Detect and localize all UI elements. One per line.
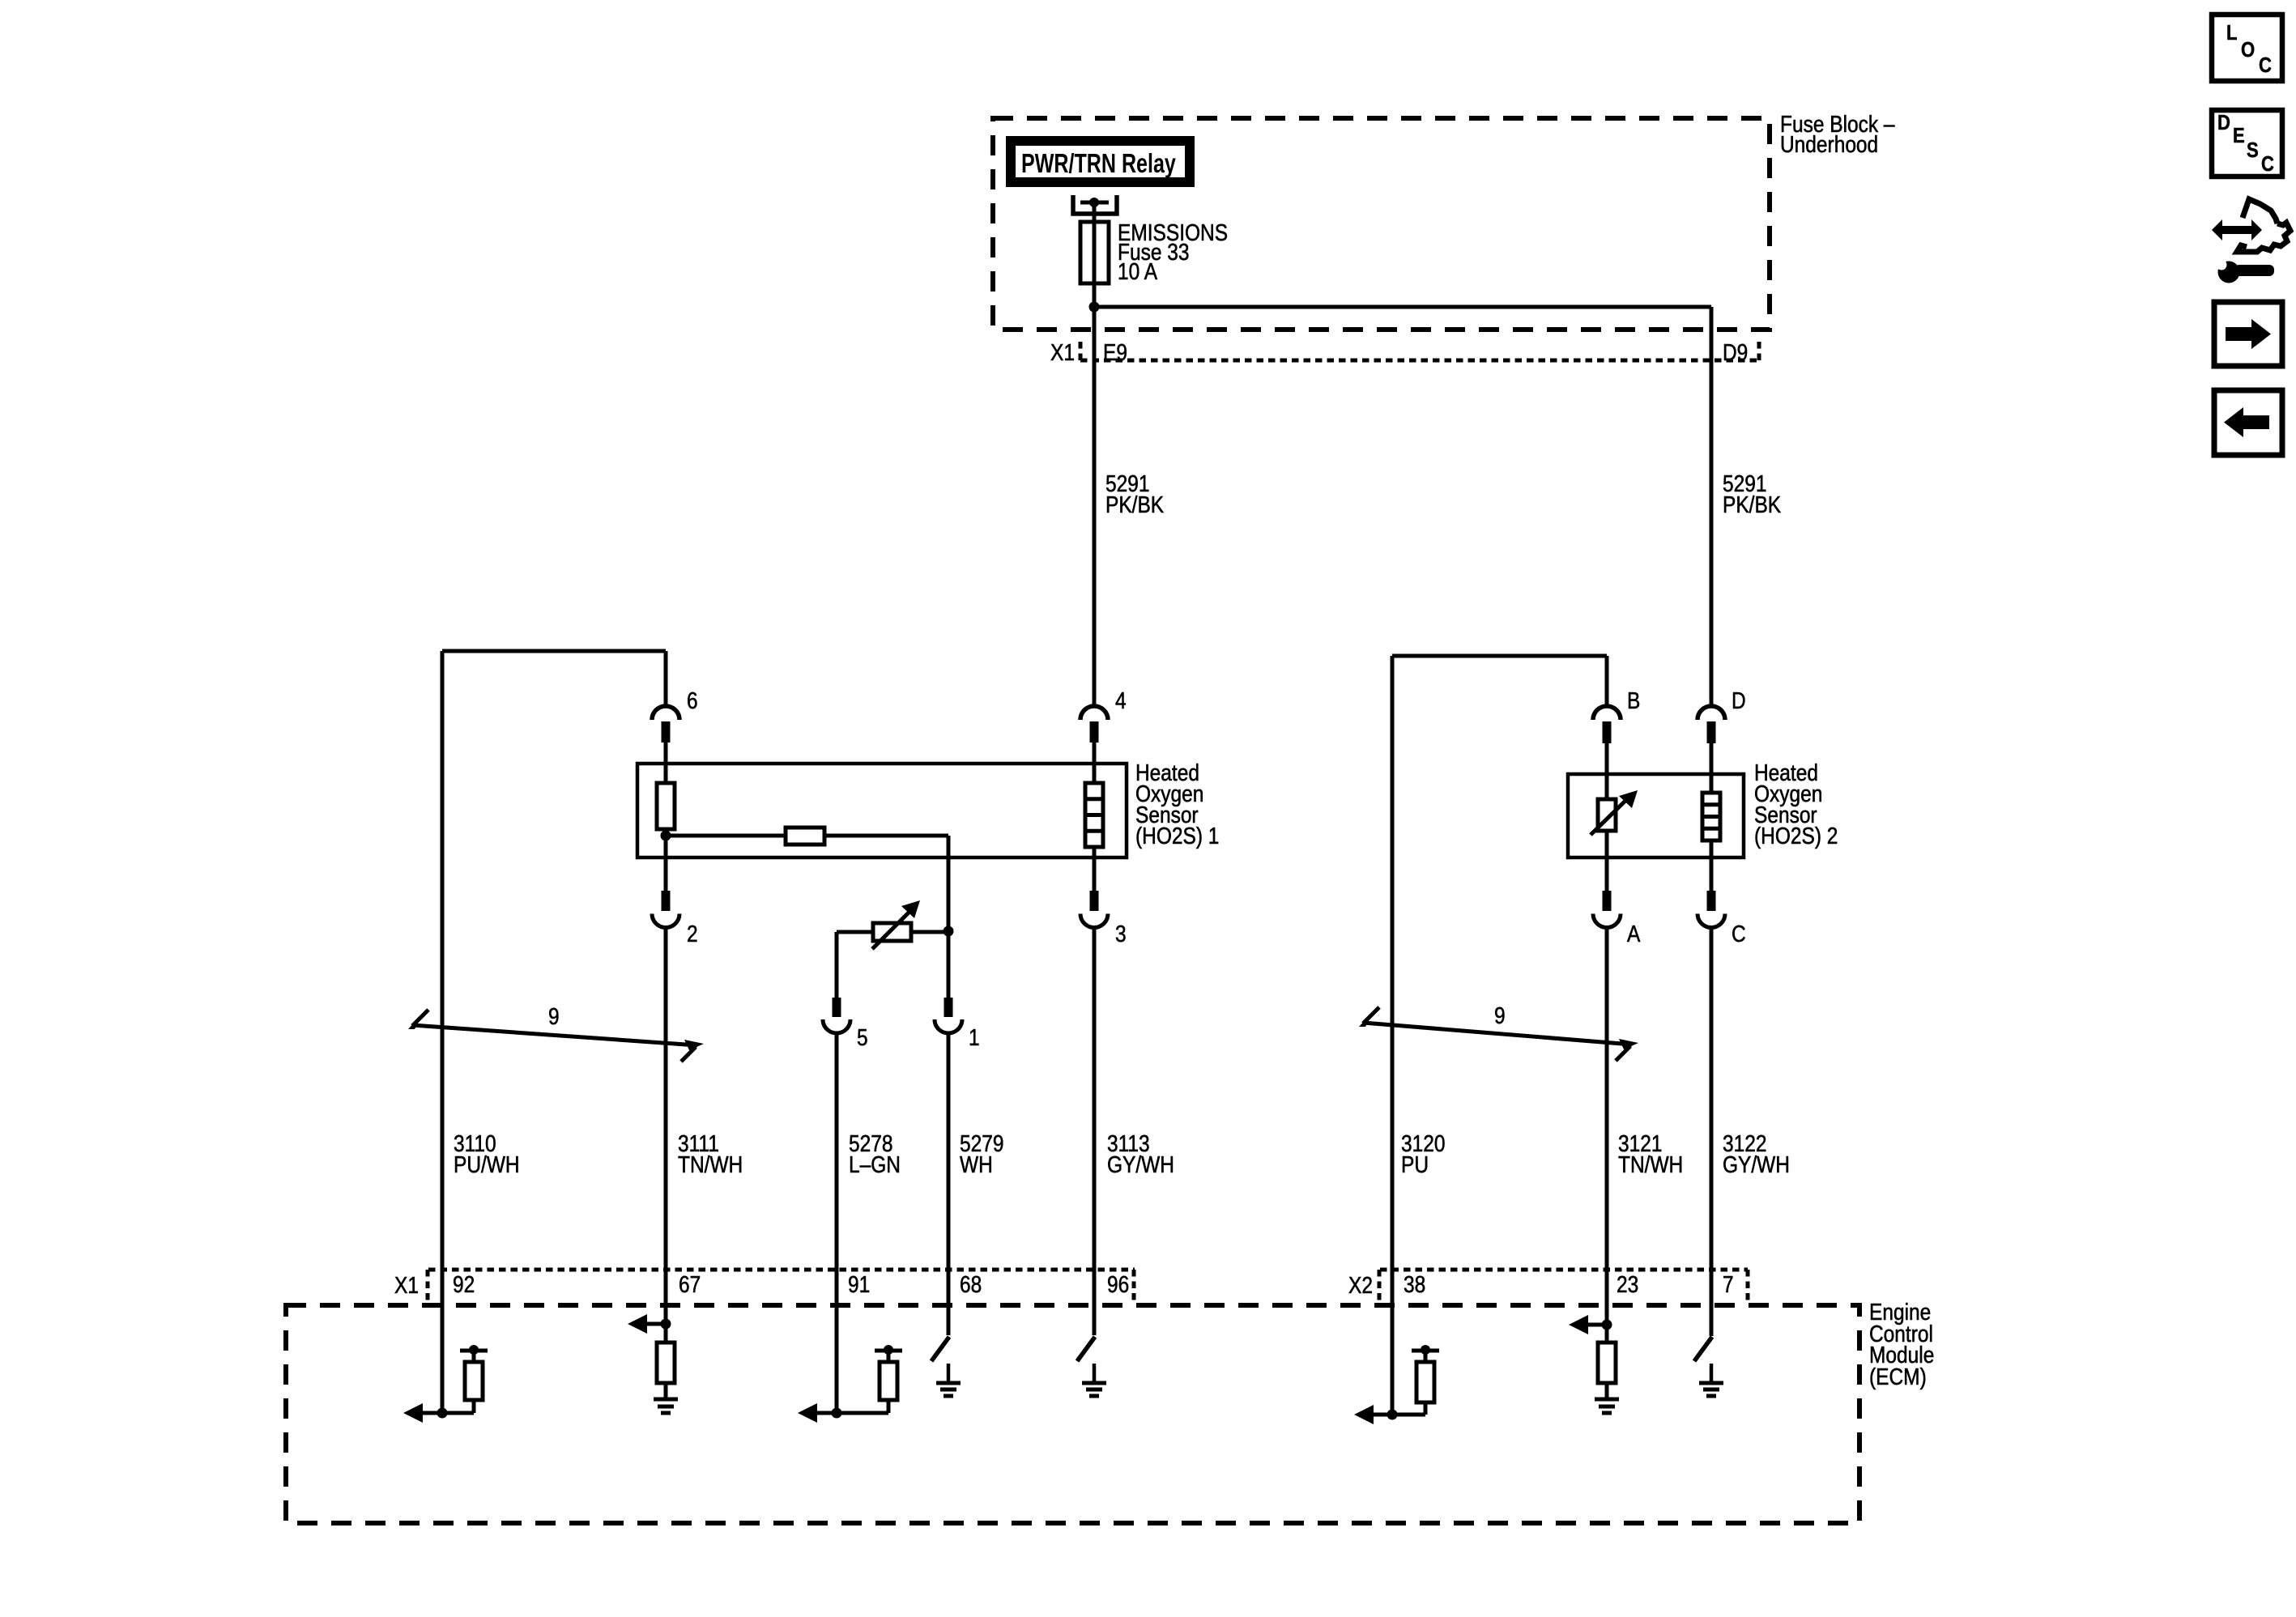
pin D terminal	[1707, 721, 1716, 743]
wire 3120 vertical	[1391, 656, 1395, 1415]
svg-text:TN/WH: TN/WH	[678, 1151, 743, 1177]
pin 67 junction dot	[661, 1319, 671, 1330]
connector tick left E9	[1079, 342, 1083, 363]
label pin 23	[1617, 1271, 1638, 1297]
wire 3121 down to ECM	[1605, 928, 1609, 1326]
pin 38 pull-up resistor	[1392, 1345, 1439, 1415]
svg-text:68: 68	[960, 1271, 982, 1297]
pin 96 ground	[1082, 1364, 1106, 1396]
fuse block underhood dashed box	[993, 118, 1770, 330]
label X1 ECM	[394, 1272, 419, 1298]
ECM dashed box	[286, 1305, 1859, 1523]
svg-text:B: B	[1627, 687, 1640, 713]
label pin 2	[687, 921, 698, 947]
pin 6 terminal	[662, 721, 671, 743]
label pin 91	[848, 1271, 870, 1297]
label wire 3122 GY/WH	[1723, 1130, 1790, 1177]
svg-text:9: 9	[1494, 1002, 1506, 1028]
relay K1 PWR/TRN Relay box	[1011, 141, 1190, 182]
svg-text:96: 96	[1107, 1271, 1129, 1297]
label pin 6	[687, 687, 698, 713]
svg-text:38: 38	[1404, 1271, 1425, 1297]
label Heated Oxygen Sensor HO2S 1	[1135, 760, 1219, 849]
sense resistor HO2S1	[786, 828, 824, 845]
pin 91 signal arrow	[798, 1403, 837, 1423]
wire sense down to pin 1	[947, 836, 951, 998]
potentiometer HO2S2 arrow	[1591, 790, 1638, 835]
svg-text:GY/WH: GY/WH	[1723, 1151, 1790, 1177]
pin 68 ground	[936, 1364, 961, 1396]
icon back arrow	[2224, 407, 2269, 437]
wire resistor to junction	[664, 829, 668, 891]
wire down to pin B	[1605, 656, 1609, 706]
icon adjust tool double arrow	[2212, 219, 2262, 240]
label wire 5291 PK/BK left	[1105, 470, 1164, 517]
svg-text:(ECM): (ECM)	[1869, 1364, 1927, 1389]
label pin 4	[1115, 687, 1127, 713]
pin 38 junction dot	[1387, 1410, 1398, 1420]
pin 23 resistor to ground	[1598, 1325, 1616, 1399]
pin 67 ground	[654, 1399, 678, 1413]
pin 23 signal arrow	[1569, 1315, 1607, 1334]
label pin C	[1732, 921, 1746, 947]
pin 1 connector arc	[935, 1019, 962, 1033]
svg-text:PK/BK: PK/BK	[1105, 491, 1164, 517]
label pin 1	[969, 1024, 980, 1050]
label wire 3121 TN/WH	[1618, 1130, 1683, 1177]
pin B connector arc	[1593, 706, 1621, 720]
ECM connector row X1 dotted line	[428, 1268, 1135, 1272]
svg-text:PK/BK: PK/BK	[1723, 491, 1781, 517]
pin 1 terminal	[944, 998, 953, 1017]
pin 7 ground	[1699, 1364, 1723, 1396]
label pin 96	[1107, 1271, 1129, 1297]
wire count slash right 9	[1359, 1007, 1638, 1061]
wire horizontal fuse output to D9	[1094, 305, 1711, 309]
label pin 3	[1115, 921, 1127, 947]
label pin D	[1732, 687, 1746, 713]
svg-text:C: C	[2259, 53, 2272, 77]
svg-text:Underhood: Underhood	[1780, 131, 1878, 157]
svg-text:(HO2S) 1: (HO2S) 1	[1135, 823, 1219, 849]
wire element to pin 3	[1093, 847, 1097, 891]
wire pin 6 into box	[664, 743, 668, 783]
icon forward arrow box	[2214, 302, 2282, 366]
junction dot below fuse	[1089, 302, 1100, 313]
svg-text:C: C	[2261, 152, 2274, 176]
potentiometer junction dot	[944, 926, 954, 937]
label 9 right	[1494, 1002, 1506, 1028]
svg-text:A: A	[1627, 921, 1640, 947]
pin C connector arc	[1698, 914, 1725, 928]
label D9	[1723, 339, 1748, 365]
sensing element HO2S1	[1085, 783, 1103, 847]
icon LOC letters	[2226, 21, 2272, 77]
label E9	[1103, 339, 1127, 365]
wire loop HO2S2 top horizontal	[1392, 654, 1607, 658]
label wire 5291 PK/BK right	[1723, 470, 1781, 517]
svg-text:WH: WH	[960, 1151, 993, 1177]
wire relay to fuse to node E9	[1093, 202, 1097, 705]
label pin 68	[960, 1271, 982, 1297]
icon adjust tool glove outline	[2237, 199, 2290, 252]
svg-text:S: S	[2247, 138, 2259, 162]
pin 3 connector arc	[1080, 914, 1108, 928]
svg-text:7: 7	[1723, 1271, 1734, 1297]
wire count slash left 9	[408, 1010, 704, 1062]
pin 67 signal arrow	[628, 1314, 666, 1334]
label wire 3113 GY/WH	[1107, 1130, 1174, 1177]
pin A connector arc	[1593, 914, 1621, 928]
relay contact dot	[1089, 198, 1099, 207]
wire 3111 down to ECM	[664, 928, 668, 1325]
pin 23 ground	[1595, 1399, 1619, 1413]
wire loop HO2S1 top horizontal	[442, 649, 666, 653]
svg-text:X2: X2	[1348, 1272, 1373, 1298]
wire 3122 down to ECM	[1710, 928, 1714, 1337]
pin 6 connector arc	[652, 706, 679, 720]
pin 23 junction dot	[1602, 1320, 1612, 1330]
svg-text:PU/WH: PU/WH	[454, 1151, 520, 1177]
potentiometer HO2S2 body	[1598, 799, 1616, 831]
potentiometer wire right	[911, 930, 948, 934]
heater resistor HO2S1	[657, 783, 675, 829]
label pin 92	[453, 1271, 475, 1297]
pin 2 terminal	[662, 891, 671, 911]
label Engine Control Module ECM	[1869, 1299, 1934, 1389]
pin B terminal	[1603, 721, 1612, 743]
label wire 3111 TN/WH	[678, 1130, 743, 1177]
svg-text:2: 2	[687, 921, 698, 947]
icon back arrow box	[2214, 390, 2282, 455]
wire pot to pin A	[1605, 831, 1609, 891]
X1 row tick left	[426, 1270, 430, 1300]
svg-text:D: D	[1732, 687, 1746, 713]
pin 4 connector arc	[1080, 706, 1108, 720]
pin C terminal	[1707, 891, 1716, 911]
svg-text:92: 92	[453, 1271, 475, 1297]
pin 7 switch blade	[1694, 1337, 1712, 1361]
svg-text:6: 6	[687, 687, 698, 713]
pin 5 terminal	[833, 998, 841, 1017]
potentiometer arrow	[872, 900, 920, 949]
HO2S 2 box	[1568, 774, 1744, 857]
svg-text:C: C	[1732, 921, 1746, 947]
svg-text:5: 5	[857, 1024, 868, 1050]
pin 96 switch blade	[1077, 1337, 1095, 1361]
wire 5278 down to ECM	[835, 1033, 839, 1413]
svg-text:23: 23	[1617, 1271, 1638, 1297]
pin A terminal	[1603, 891, 1612, 911]
wire pin D into box	[1710, 743, 1714, 793]
pin 68 switch blade	[931, 1337, 949, 1361]
wire 3113 down to ECM	[1093, 928, 1097, 1336]
wire 3110 vertical	[441, 651, 445, 1413]
pin 67 resistor to ground	[657, 1324, 675, 1399]
HO2S 1 box	[637, 764, 1127, 857]
svg-text:1: 1	[969, 1024, 980, 1050]
svg-text:4: 4	[1115, 687, 1127, 713]
relay contact bar	[1080, 201, 1109, 205]
label pin 67	[679, 1271, 701, 1297]
wire down to pin 6	[664, 651, 668, 706]
pin 2 connector arc	[652, 914, 679, 928]
X2 row tick right	[1746, 1270, 1750, 1300]
svg-text:91: 91	[848, 1271, 870, 1297]
svg-text:E: E	[2233, 124, 2245, 147]
pin 4 terminal	[1090, 721, 1099, 743]
label pin 38	[1404, 1271, 1425, 1297]
wire 5279 down to ECM	[947, 1033, 951, 1335]
svg-text:3: 3	[1115, 921, 1127, 947]
label X2 ECM	[1348, 1272, 1373, 1298]
potentiometer body	[873, 923, 911, 941]
connector tick right D9	[1757, 342, 1761, 363]
ECM connector row X2 dotted line	[1380, 1268, 1748, 1272]
svg-text:9: 9	[548, 1003, 560, 1029]
svg-text:(HO2S) 2: (HO2S) 2	[1754, 823, 1838, 849]
label 9 left	[548, 1003, 560, 1029]
icon wrench	[2217, 260, 2275, 283]
sensing element HO2S2	[1702, 793, 1720, 840]
label EMISSIONS Fuse 33 10 A	[1118, 219, 1228, 284]
svg-text:L: L	[2226, 21, 2237, 45]
wire pin 4 into box	[1093, 743, 1097, 783]
fuse F33 EMISSIONS	[1080, 222, 1109, 283]
svg-text:X1: X1	[394, 1272, 419, 1298]
potentiometer wire left	[837, 930, 873, 934]
svg-text:10 A: 10 A	[1118, 258, 1157, 284]
wire pin B into box	[1605, 743, 1609, 799]
X2 row tick left	[1378, 1270, 1382, 1300]
wire pot to pin 5	[835, 932, 839, 998]
svg-text:L–GN: L–GN	[849, 1151, 901, 1177]
label wire 5278 L-GN	[849, 1130, 901, 1177]
label pin A	[1627, 921, 1640, 947]
relay contact cup	[1073, 195, 1117, 214]
pin 92 signal arrow	[403, 1403, 442, 1423]
svg-text:PU: PU	[1401, 1151, 1429, 1177]
label PWR/TRN Relay	[1021, 149, 1176, 179]
icon DESC box	[2212, 110, 2282, 177]
icon DESC letters	[2217, 111, 2274, 176]
label wire 3110 PU/WH	[454, 1130, 520, 1177]
label pin 7	[1723, 1271, 1734, 1297]
connector row X1 E9 D9 dotted line	[1080, 359, 1759, 363]
pin 92 junction dot	[437, 1408, 448, 1419]
label Fuse Block Underhood	[1780, 111, 1895, 157]
icon forward arrow	[2226, 319, 2271, 349]
pin D connector arc	[1698, 706, 1725, 720]
label wire 3120 PU	[1401, 1130, 1445, 1177]
svg-text:D: D	[2217, 111, 2230, 134]
label X1	[1050, 339, 1075, 365]
label wire 5279 WH	[960, 1130, 1003, 1177]
pin 91 pull-up resistor	[837, 1345, 902, 1413]
svg-text:PWR/TRN Relay: PWR/TRN Relay	[1021, 149, 1176, 179]
pin 92 pull-up resistor	[442, 1345, 488, 1413]
svg-text:TN/WH: TN/WH	[1618, 1151, 1683, 1177]
sense wire horizontal inside HO2S1	[666, 834, 948, 838]
icon LOC box	[2212, 15, 2282, 81]
label pin 5	[857, 1024, 868, 1050]
label pin B	[1627, 687, 1640, 713]
pin 5 connector arc	[823, 1019, 850, 1033]
svg-text:GY/WH: GY/WH	[1107, 1151, 1174, 1177]
pin 91 junction dot	[832, 1408, 842, 1419]
pin 38 signal arrow	[1354, 1405, 1392, 1424]
svg-text:X1: X1	[1050, 339, 1075, 365]
pin 3 terminal	[1090, 891, 1099, 911]
X1 row tick right	[1132, 1270, 1136, 1300]
wire element to pin C	[1710, 840, 1714, 891]
svg-text:E9: E9	[1103, 339, 1127, 365]
wire down to pin D	[1710, 307, 1714, 705]
svg-text:67: 67	[679, 1271, 701, 1297]
junction dot HO2S1	[661, 831, 671, 841]
label Heated Oxygen Sensor HO2S 2	[1754, 760, 1838, 849]
svg-text:O: O	[2241, 38, 2255, 62]
svg-text:D9: D9	[1723, 339, 1748, 365]
